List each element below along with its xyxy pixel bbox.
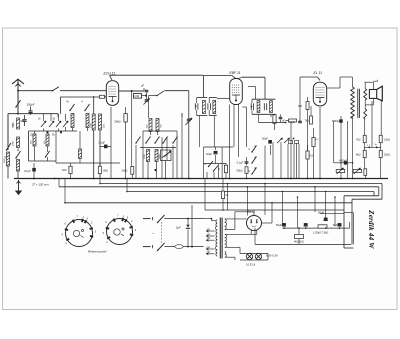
wire (225, 233, 257, 235)
wire (280, 142, 282, 179)
capacitor 500pF (21, 115, 27, 126)
wire grid EBF (203, 75, 236, 78)
wire (282, 192, 284, 226)
wire (264, 146, 266, 179)
trimmer (41, 121, 46, 132)
wire bus7 (205, 209, 344, 211)
svg-text:50µF: 50µF (262, 137, 268, 141)
junction (325, 191, 327, 193)
wire (149, 95, 158, 97)
wire (204, 147, 223, 179)
trimmer (56, 121, 61, 132)
capacitor pair (289, 138, 299, 144)
junction (93, 178, 95, 180)
inductor (71, 114, 74, 128)
switch K (213, 166, 221, 172)
junction (191, 246, 193, 248)
junction (99, 183, 101, 185)
wire (147, 162, 149, 179)
junction (334, 196, 336, 198)
svg-text:7kΩ: 7kΩ (356, 139, 361, 142)
junction (290, 178, 292, 180)
switch (251, 157, 256, 164)
svg-text:1MΩ: 1MΩ (103, 170, 108, 173)
junction (54, 178, 56, 180)
wire (191, 205, 193, 248)
svg-text:50µF: 50µF (276, 223, 283, 227)
junction (340, 178, 342, 180)
wire (73, 128, 88, 132)
svg-text:1,25kΩ 7,5kΩ: 1,25kΩ 7,5kΩ (313, 232, 328, 235)
wire (225, 212, 254, 230)
tube AZ11 label (246, 210, 255, 214)
wire (325, 192, 327, 216)
wire (225, 257, 235, 260)
svg-text:0,1 E 1A: 0,1 E 1A (246, 264, 256, 267)
inductor (147, 150, 150, 162)
wire (181, 113, 183, 179)
resistor 7k screen (298, 97, 310, 151)
resistor 25k (379, 150, 390, 157)
wire (44, 127, 66, 131)
switch (162, 137, 167, 144)
resistor (224, 163, 227, 179)
wire (59, 179, 205, 211)
wire (56, 162, 120, 164)
svg-text:Zerdik 44 W: Zerdik 44 W (367, 209, 375, 249)
junction (340, 162, 342, 164)
switch osc (156, 91, 164, 97)
wire (227, 184, 229, 211)
junction (271, 202, 273, 204)
label 2T+120mm (31, 183, 49, 187)
svg-text:EL 11: EL 11 (314, 71, 323, 75)
wire (165, 218, 204, 220)
speaker LS (365, 80, 383, 105)
trimmer (49, 121, 54, 127)
ground (15, 180, 22, 195)
junction (64, 202, 66, 204)
svg-text:M: M (67, 101, 69, 104)
lamp (246, 253, 252, 259)
variable capacitor (186, 91, 193, 179)
svg-text:0,1µF: 0,1µF (289, 121, 296, 124)
node (60, 131, 62, 133)
switch (6, 143, 11, 151)
inductor secondary (364, 82, 367, 100)
resistor 12k (379, 135, 390, 142)
svg-text:µF: µF (141, 84, 144, 88)
tube EBF11 label (230, 71, 241, 75)
capacitor T2a (251, 103, 254, 110)
wire (344, 213, 353, 245)
svg-text:50kΩ: 50kΩ (115, 120, 121, 124)
inductor 300 (149, 119, 152, 132)
wire (17, 90, 52, 92)
inductor 750 (156, 119, 159, 132)
svg-text:5µF: 5µF (333, 223, 338, 227)
wire (297, 197, 299, 228)
junction (247, 186, 249, 188)
inductor (17, 137, 20, 148)
junction (297, 196, 299, 198)
capacitor 0.1uF (24, 163, 36, 179)
wire (352, 116, 354, 179)
potentiometer vol (336, 168, 345, 174)
wire (270, 145, 272, 155)
wire (225, 247, 240, 253)
svg-text:25kΩ: 25kΩ (384, 154, 390, 157)
wire (225, 218, 247, 220)
svg-text:7kΩ: 7kΩ (305, 120, 310, 123)
label 425 (44, 140, 46, 144)
wire (217, 97, 230, 99)
resistor 50k (237, 167, 249, 179)
svg-text:12kΩ: 12kΩ (384, 139, 390, 142)
trimmer (63, 121, 68, 127)
label 25pF (30, 134, 55, 137)
potentiometer tone (353, 168, 362, 174)
resistor 1k (62, 163, 72, 179)
node (154, 169, 156, 171)
resistor 50k (115, 107, 128, 179)
tube EL11 label (314, 71, 323, 75)
wire (270, 114, 272, 117)
wire (298, 144, 300, 179)
transformer T2 primary (216, 220, 218, 257)
junction (126, 191, 128, 193)
junction (222, 209, 224, 211)
wire (131, 118, 134, 166)
label Zerdik 44 W (367, 209, 375, 249)
wire (287, 144, 289, 179)
tube ECH11 (106, 81, 118, 106)
capacitor (141, 84, 148, 92)
tube socket B (103, 214, 137, 244)
wire grid EL (300, 77, 320, 81)
tube ECH11 label (104, 72, 116, 76)
wire (181, 113, 183, 117)
core (358, 89, 360, 118)
capacitor (304, 223, 308, 226)
wire (203, 246, 205, 248)
wire (334, 121, 348, 179)
transformer secondary LT (225, 251, 227, 257)
label 2000 (13, 140, 15, 146)
junction (125, 178, 127, 180)
svg-text:240: 240 (206, 251, 211, 254)
wire (247, 187, 249, 216)
trimmer (277, 138, 283, 143)
wire (143, 131, 177, 137)
junction (229, 178, 231, 180)
inductor (17, 160, 20, 179)
inductor (79, 131, 82, 163)
wire anode EL (327, 77, 353, 88)
svg-text:2000: 2000 (13, 140, 15, 146)
resistor screen (305, 106, 313, 124)
wire (207, 172, 214, 179)
svg-text:EBF 11: EBF 11 (230, 71, 241, 75)
wire (8, 113, 58, 115)
wire (29, 160, 57, 162)
junction (264, 183, 266, 185)
tap 110 (206, 229, 214, 232)
capacitor 0.1uF (237, 157, 249, 166)
wire frame right (320, 213, 344, 215)
wire (254, 146, 256, 170)
label Roehrensockel (88, 250, 107, 254)
wire (7, 114, 9, 150)
wire (165, 90, 189, 92)
resistor det (273, 114, 276, 130)
wire (110, 107, 112, 163)
wire (165, 161, 167, 179)
label K (82, 101, 84, 104)
wire (156, 162, 158, 179)
wire filter bottom (255, 243, 351, 245)
label lamps (246, 254, 278, 267)
wire (259, 114, 286, 122)
potentiometer hum (294, 235, 304, 244)
wire (119, 88, 145, 92)
svg-text:5000: 5000 (4, 157, 6, 163)
wire (172, 145, 174, 179)
switch (145, 137, 150, 144)
wire (148, 96, 150, 118)
junction (147, 178, 149, 180)
wire (365, 101, 381, 179)
inductor (46, 134, 49, 152)
svg-text:Röhrensockel: Röhrensockel (88, 250, 107, 254)
svg-text:220: 220 (206, 247, 211, 249)
tap 240 (206, 251, 215, 255)
wire (240, 253, 268, 260)
wire (57, 114, 59, 117)
switch S1 (15, 100, 20, 108)
wire (99, 114, 101, 179)
label 550b (31, 140, 33, 144)
transformer secondary HT (225, 219, 227, 230)
label 550 (13, 124, 15, 128)
wire (293, 144, 295, 179)
wire (0, 0, 1, 1)
wire (161, 137, 163, 179)
resistor 0.5M (306, 145, 314, 179)
wire (142, 137, 144, 179)
resistor 7k (356, 135, 366, 142)
label M (67, 101, 69, 104)
svg-text:20µF: 20µF (206, 152, 212, 156)
capacitor 100pF (27, 103, 35, 114)
tap 125 (206, 234, 214, 237)
bus chassis (14, 178, 388, 180)
switch (154, 137, 159, 144)
wire (334, 197, 336, 226)
tap 220 (206, 247, 215, 250)
wire (238, 105, 240, 158)
inductor output primary (351, 77, 355, 119)
wire (60, 97, 99, 114)
fuse (175, 245, 183, 249)
svg-text:100pF: 100pF (27, 103, 35, 107)
wire (17, 99, 19, 114)
wire (161, 222, 163, 244)
capacitor 2uF (176, 218, 190, 248)
junction (319, 178, 321, 180)
capacitor 50uF a (318, 211, 328, 221)
antenna (12, 79, 24, 99)
switch (69, 104, 74, 111)
wire (93, 96, 95, 179)
IF transformer T1a (195, 97, 207, 115)
wire (55, 131, 57, 163)
svg-text:U: U (249, 148, 251, 151)
wire (262, 203, 273, 223)
resistor 8k (356, 150, 366, 157)
inductor 550 (12, 118, 20, 129)
resistor 0.25M (312, 128, 319, 179)
junction (188, 178, 190, 180)
wire (0, 0, 1, 1)
terminal mains (143, 217, 153, 248)
wire (319, 107, 321, 179)
capacitor det (279, 114, 286, 122)
tube AZ11 (247, 216, 262, 235)
label 200 (104, 124, 106, 128)
wire (238, 77, 265, 99)
inductor field coil (364, 105, 367, 135)
label 50pF (53, 119, 56, 121)
wire (299, 77, 301, 122)
capacitor 5uF (333, 223, 342, 227)
svg-text:8kΩ: 8kΩ (356, 154, 361, 157)
junction (282, 191, 284, 193)
switch S2 (52, 87, 107, 92)
junction (283, 227, 340, 229)
transformer secondary HT2 (225, 234, 227, 247)
wire (204, 163, 227, 165)
junction (227, 183, 229, 185)
switch U (205, 161, 214, 167)
tube EL11 (313, 82, 326, 106)
resistor 20k (122, 166, 134, 174)
switch (135, 137, 140, 144)
wire (264, 184, 266, 216)
switch (15, 149, 20, 159)
junction (165, 178, 167, 180)
wire bus6 (65, 202, 352, 204)
transformer core (220, 218, 222, 259)
wire (200, 116, 219, 179)
resistor (364, 169, 367, 176)
node (46, 131, 48, 133)
IF transformer T1b (208, 97, 217, 115)
wire (234, 105, 247, 148)
switch mains b (157, 243, 165, 251)
svg-text:20kΩ: 20kΩ (122, 170, 128, 173)
wire (364, 143, 381, 151)
svg-text:0,1µF: 0,1µF (237, 161, 244, 165)
capacitor T2b (264, 103, 266, 110)
wire (314, 187, 316, 212)
capacitor padder GW (134, 94, 148, 99)
label 2000b (159, 154, 161, 159)
lamp (255, 253, 261, 259)
wire (176, 137, 178, 179)
capacitor 4500pF (334, 159, 353, 164)
resistor grid (100, 95, 107, 98)
junction (314, 186, 316, 188)
switch mains a (157, 215, 165, 223)
svg-text:50kΩ: 50kΩ (237, 169, 243, 173)
svg-text:2T + 120 mm: 2T + 120 mm (31, 183, 49, 187)
wire (131, 91, 133, 118)
label 750 (161, 124, 163, 128)
wire (44, 114, 66, 121)
capacitor padder (161, 150, 172, 161)
wire (151, 132, 158, 136)
svg-text:∼: ∼ (152, 232, 155, 236)
IF transformer T2 (252, 99, 275, 114)
wire (254, 228, 256, 244)
junction (307, 178, 309, 180)
wire (349, 222, 351, 228)
wire bus4 (127, 192, 374, 196)
inductor T2a (257, 101, 260, 113)
trimmer (144, 93, 150, 105)
label 1000 (91, 123, 93, 128)
wire bus2 (100, 184, 382, 245)
wire (213, 116, 215, 147)
wire (100, 163, 133, 179)
label mains (152, 232, 155, 236)
switch (172, 137, 177, 144)
resistor 4k (285, 119, 297, 123)
label 5000 (4, 157, 6, 163)
inductor (33, 131, 36, 161)
wire (298, 228, 300, 244)
wire (290, 123, 292, 179)
capacitor 0.1uF EL (289, 121, 302, 124)
inductor (155, 150, 158, 162)
wire bus3 (59, 187, 379, 248)
junction (352, 178, 354, 180)
wire (165, 246, 204, 248)
inductor 1000 (92, 114, 95, 130)
resistor 1M (98, 166, 108, 174)
switch (249, 146, 257, 153)
capacitor 4500pF (0, 0, 1, 1)
switch (45, 151, 50, 161)
wire (140, 147, 176, 149)
inductor T1a (203, 100, 206, 113)
switch (84, 104, 89, 111)
svg-text:2µF: 2µF (176, 226, 181, 230)
svg-text:0,1µF: 0,1µF (24, 169, 31, 173)
svg-text:U: U (249, 170, 251, 173)
junction (298, 227, 300, 229)
svg-text:0,1µF: 0,1µF (99, 142, 106, 145)
wire (202, 75, 204, 97)
trimmer (284, 138, 290, 143)
inductor (86, 114, 89, 128)
inductor 5000 (5, 152, 10, 179)
wire filter top (283, 227, 350, 229)
wire (380, 101, 382, 136)
junction (352, 162, 354, 164)
wire (229, 105, 231, 179)
